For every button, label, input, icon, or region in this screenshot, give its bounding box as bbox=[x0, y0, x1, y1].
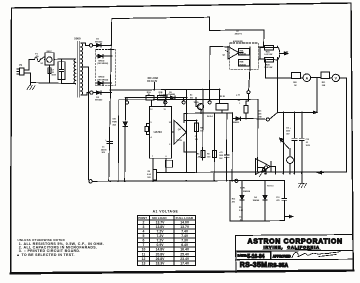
svg-text:3300: 3300 bbox=[286, 131, 290, 133]
capacitor C13 leg bbox=[276, 181, 287, 221]
svg-text:26.8V: 26.8V bbox=[156, 257, 166, 261]
svg-text:APPROVED: APPROVED bbox=[273, 254, 292, 258]
svg-text:2N3055: 2N3055 bbox=[239, 64, 246, 66]
junction dots rail A bbox=[109, 180, 111, 182]
resistor R2B bbox=[264, 58, 273, 69]
output + arrow bbox=[279, 53, 285, 55]
wire bus2 (V+ on PCB) bbox=[126, 96, 187, 98]
svg-text:25.4V: 25.4V bbox=[180, 252, 190, 256]
diode D6 bbox=[232, 117, 258, 124]
svg-text:16.4V: 16.4V bbox=[180, 248, 190, 252]
IC pin 13 stub bbox=[164, 100, 166, 107]
svg-text:100: 100 bbox=[207, 156, 210, 158]
svg-text:2: 2 bbox=[143, 220, 145, 224]
svg-text:10: 10 bbox=[142, 248, 146, 252]
svg-text:RS-35M: RS-35M bbox=[240, 262, 267, 269]
wire secondary bottom lead bbox=[81, 93, 90, 95]
IC U1 UA723 bbox=[145, 106, 172, 158]
wire Q2 collector to R3 bbox=[184, 110, 232, 122]
svg-text:DC 18.3V: DC 18.3V bbox=[147, 81, 157, 83]
arrow aux output bbox=[284, 216, 289, 218]
svg-text:7: 7 bbox=[152, 156, 153, 158]
resistor R7 across IC pins 4-5 bbox=[147, 124, 150, 135]
resistor R9 on pin7 leg bbox=[147, 170, 156, 180]
pot R22 voltage adjust bbox=[280, 112, 289, 175]
svg-text:TIP29: TIP29 bbox=[194, 102, 199, 104]
wire emitter down to sense terminal bbox=[249, 69, 250, 90]
svg-text:2.2: 2.2 bbox=[159, 94, 162, 96]
svg-text:R21: R21 bbox=[322, 82, 325, 84]
svg-text:C8: C8 bbox=[195, 136, 197, 138]
svg-text:NO LOAD: NO LOAD bbox=[148, 77, 159, 80]
svg-text:5: 5 bbox=[151, 122, 152, 124]
wire meter junction down to sense bus bbox=[316, 78, 318, 113]
diode D9 vertical with crowbar path bbox=[123, 97, 127, 181]
wire raw + top run to pass transistor bbox=[113, 17, 264, 47]
svg-text:13.7V: 13.7V bbox=[180, 225, 190, 229]
transistor Q6 TIP29 driver bbox=[196, 98, 203, 114]
plug P1 bbox=[17, 65, 24, 75]
transistor Q1 symbol bbox=[223, 47, 240, 60]
capacitor C1 (main filter) on + rail bbox=[101, 140, 113, 155]
svg-text:7.4V: 7.4V bbox=[181, 230, 189, 234]
svg-text:/RS-35A: /RS-35A bbox=[268, 263, 289, 269]
svg-text:▲10: ▲10 bbox=[236, 93, 240, 96]
vertical wire x=232 bbox=[231, 113, 233, 181]
svg-text:0.05 10W: 0.05 10W bbox=[264, 54, 272, 56]
svg-text:100: 100 bbox=[195, 139, 198, 141]
svg-text:TIP29: TIP29 bbox=[176, 140, 182, 142]
line capacitor C7 box bbox=[58, 59, 65, 82]
wire switch to MOV box bbox=[44, 58, 46, 60]
wire Q2 base node to R8 chain bbox=[184, 119, 197, 121]
voltmeter M2 bbox=[330, 74, 347, 81]
dashed enclosure 4 parallel transistors bbox=[230, 43, 258, 69]
svg-text:12: 12 bbox=[142, 257, 146, 261]
junction bus1 feed bbox=[219, 89, 221, 91]
node terminal 2 bbox=[182, 101, 185, 104]
svg-text:SR1660: SR1660 bbox=[95, 41, 103, 43]
wire center tap bbox=[81, 67, 89, 180]
svg-text:C12: C12 bbox=[306, 139, 309, 141]
svg-text:10: 10 bbox=[169, 122, 171, 124]
svg-text:R5B: R5B bbox=[240, 62, 244, 64]
wire plug hot to fuse bbox=[24, 59, 35, 70]
fuse F1 bbox=[35, 54, 41, 62]
diode D1 bbox=[93, 39, 112, 47]
junction dots bus2 bbox=[186, 97, 188, 99]
diode D1B (alt) bbox=[97, 55, 113, 66]
diode D4 leg bbox=[253, 181, 268, 221]
svg-text:1N4148: 1N4148 bbox=[253, 199, 260, 202]
labels R2C sense resistor bbox=[258, 110, 262, 118]
junction arrow minus output bbox=[318, 172, 324, 174]
svg-text:1: 1 bbox=[239, 103, 240, 105]
wire hot run to transformer bbox=[54, 58, 76, 60]
resistor R1A bbox=[146, 91, 154, 100]
labels Q1 2N3771 bbox=[233, 31, 243, 43]
svg-text:2N3055: 2N3055 bbox=[239, 53, 246, 55]
capacitor C11 bbox=[286, 112, 297, 175]
svg-text:R5A: R5A bbox=[240, 50, 244, 53]
vertical chain R7a bbox=[196, 89, 205, 160]
svg-text:R2C: R2C bbox=[258, 110, 262, 112]
wire Q2 emitter run bbox=[184, 142, 197, 152]
terminal secondary top bbox=[89, 44, 92, 47]
terminal on 0V rail A bbox=[235, 179, 238, 182]
resistor R20 bbox=[292, 73, 301, 87]
svg-text:6.4V: 6.4V bbox=[181, 243, 189, 247]
svg-text:13: 13 bbox=[142, 261, 146, 265]
node terminal 3 bbox=[164, 101, 167, 104]
svg-text:R3 2K: R3 2K bbox=[220, 96, 226, 98]
svg-text:UA723: UA723 bbox=[154, 130, 163, 134]
svg-text:A1 VOLTAGE: A1 VOLTAGE bbox=[153, 210, 179, 214]
wire parallel pair top bbox=[260, 47, 278, 49]
svg-text:DIO: DIO bbox=[113, 118, 117, 120]
svg-text:470: 470 bbox=[276, 199, 279, 202]
svg-text:R9: R9 bbox=[148, 171, 150, 173]
wire bus1 (raw + to PCB) bbox=[112, 89, 220, 103]
resistor R8b (sense) bbox=[236, 93, 249, 118]
wire emitter out to R2 pair bbox=[258, 58, 260, 60]
svg-text:1000: 1000 bbox=[219, 155, 223, 157]
label C7 .01 600V bbox=[52, 70, 57, 77]
secondary winding bbox=[81, 43, 82, 95]
signature bbox=[292, 252, 340, 258]
svg-text:SR602: SR602 bbox=[98, 77, 105, 79]
svg-text:R17 10: R17 10 bbox=[267, 186, 273, 188]
label DIO FWB 35A bbox=[112, 118, 117, 126]
title block bbox=[236, 235, 354, 273]
svg-text:18.3V: 18.3V bbox=[156, 261, 166, 265]
svg-text:7.2V: 7.2V bbox=[157, 230, 165, 234]
svg-text:12: 12 bbox=[150, 109, 152, 111]
wire parallel pair bottom bbox=[260, 48, 278, 60]
wire rectifier + rail (vertical) bbox=[109, 19, 112, 182]
wire bus1 to bus2 drop bbox=[186, 90, 188, 98]
node terminal 13 (base drive out) bbox=[208, 101, 211, 104]
svg-text:R8: R8 bbox=[238, 100, 240, 102]
diode D5 on bus2 bbox=[168, 92, 175, 99]
switch S1 bbox=[40, 57, 46, 66]
node terminal 10 (bus2 feed) bbox=[125, 101, 128, 104]
label D5 TIP29 block bbox=[190, 93, 199, 104]
svg-text:SCR1: SCR1 bbox=[240, 188, 246, 190]
svg-text:C13: C13 bbox=[276, 197, 279, 199]
svg-text:13: 13 bbox=[164, 109, 166, 111]
svg-text:R12: R12 bbox=[239, 207, 242, 209]
diode D2B (alt) bbox=[97, 77, 112, 85]
resistor R3 bbox=[216, 96, 228, 110]
svg-text:7.4V: 7.4V bbox=[181, 234, 189, 238]
wire trigger network bottom bbox=[230, 220, 284, 222]
svg-text:.01: .01 bbox=[306, 142, 309, 144]
terminal secondary bottom bbox=[90, 91, 93, 94]
svg-text:11: 11 bbox=[142, 252, 146, 256]
terminal PCB right bottom bbox=[264, 166, 267, 169]
svg-text:FWB: FWB bbox=[112, 121, 117, 123]
svg-text:+C5: +C5 bbox=[219, 152, 223, 154]
alternate FWB dashed box bbox=[96, 50, 116, 86]
ballast resistor block R5B bbox=[239, 60, 250, 67]
junction dots on + rail bbox=[110, 44, 112, 46]
svg-text:23.4V: 23.4V bbox=[180, 257, 190, 261]
svg-text:▲ TO BE SELECTED IN TEST.: ▲ TO BE SELECTED IN TEST. bbox=[16, 253, 75, 257]
resistor R8 chain vertical bbox=[194, 120, 203, 173]
svg-text:R2B: R2B bbox=[266, 64, 270, 66]
ballast resistor block R5A bbox=[239, 49, 250, 56]
svg-text:2.2K: 2.2K bbox=[239, 210, 244, 212]
svg-text:1N4003: 1N4003 bbox=[233, 121, 240, 124]
resistor R21 bbox=[321, 72, 330, 87]
zener D3 leg bbox=[232, 180, 244, 222]
capacitor C3 bbox=[160, 90, 168, 101]
wire 0V rail B bbox=[157, 78, 347, 172]
resistor R1B bbox=[158, 92, 166, 100]
svg-text:MOV: MOV bbox=[47, 51, 53, 53]
transformer core bbox=[77, 42, 79, 98]
svg-text:1.4K: 1.4K bbox=[196, 155, 201, 158]
svg-text:DATE:: DATE: bbox=[238, 254, 247, 258]
svg-text:+14V: +14V bbox=[283, 50, 289, 53]
svg-text:17.4V: 17.4V bbox=[180, 261, 190, 265]
svg-text:IRVINE, CALIFORNIA: IRVINE, CALIFORNIA bbox=[264, 245, 320, 250]
svg-text:SR602: SR602 bbox=[98, 60, 105, 62]
wire R2B node down to meter row bbox=[265, 60, 291, 78]
svg-text:800: 800 bbox=[190, 97, 193, 99]
svg-text:R2A: R2A bbox=[266, 51, 270, 54]
svg-text:0.9V: 0.9V bbox=[157, 243, 165, 247]
wire long drop x=186.6 to PCB bottom bbox=[185, 97, 187, 172]
svg-text:34000: 34000 bbox=[101, 148, 107, 151]
svg-text:4: 4 bbox=[143, 230, 145, 234]
svg-text:1N4448: 1N4448 bbox=[168, 93, 175, 96]
earth ground at input bbox=[27, 83, 35, 90]
wire diagonal into PCB sense terminal bbox=[269, 112, 277, 119]
svg-text:600V: 600V bbox=[52, 75, 57, 77]
svg-text:13.8V: 13.8V bbox=[156, 225, 166, 229]
SCR1 symbol bbox=[240, 159, 276, 194]
MOV M1 bbox=[45, 51, 54, 65]
junction dots bus1 bbox=[165, 89, 167, 91]
svg-text:7: 7 bbox=[143, 243, 145, 247]
svg-text:6: 6 bbox=[143, 239, 145, 243]
svg-text:20.8V: 20.8V bbox=[156, 252, 166, 256]
component box on pin6 area bbox=[165, 160, 172, 167]
svg-text:.068: .068 bbox=[258, 113, 262, 115]
node label raw DC bus bbox=[147, 77, 158, 91]
vertical chain R9a bbox=[207, 112, 216, 181]
terminal center tap on 0V rail bbox=[89, 180, 92, 183]
svg-text:5-16-84: 5-16-84 bbox=[247, 254, 264, 260]
output + node arc bbox=[277, 46, 279, 60]
capacitor C12 bbox=[299, 112, 310, 174]
diode D2 bbox=[93, 91, 111, 102]
transistor Q2 driver bbox=[172, 120, 187, 144]
wire sense bus to meters junction bbox=[278, 111, 317, 113]
svg-text:5000: 5000 bbox=[74, 37, 81, 41]
wire 0V rail A bbox=[92, 180, 284, 183]
wire IC pin6 to 0V wire bbox=[165, 158, 167, 172]
svg-text:10W: 10W bbox=[258, 116, 262, 118]
svg-text:A1: A1 bbox=[190, 93, 192, 96]
svg-text:2: 2 bbox=[169, 144, 170, 146]
svg-text:R20: R20 bbox=[293, 82, 296, 84]
svg-text:13.7V: 13.7V bbox=[156, 220, 166, 224]
notes bbox=[16, 238, 104, 257]
svg-text:R9: R9 bbox=[207, 153, 209, 155]
svg-text:R6: R6 bbox=[197, 153, 199, 155]
svg-text:SR1660: SR1660 bbox=[95, 100, 103, 102]
trigger network left leg bbox=[229, 181, 231, 221]
primary winding bbox=[74, 59, 75, 84]
capacitor C5 vertical bbox=[219, 113, 229, 181]
voltage table bbox=[138, 210, 196, 266]
svg-text:7.2V: 7.2V bbox=[157, 234, 165, 238]
resistor R2A bbox=[264, 45, 273, 56]
svg-text:470: 470 bbox=[232, 201, 235, 204]
PCB A1 outline bbox=[118, 99, 258, 181]
chassis ground on rail B bbox=[298, 173, 306, 188]
svg-text:14.0V: 14.0V bbox=[180, 220, 190, 224]
pilot lamp DS1 bbox=[287, 149, 294, 175]
svg-text:2N6504: 2N6504 bbox=[243, 190, 251, 193]
svg-text:R4 2.4: R4 2.4 bbox=[207, 115, 214, 118]
svg-text:7.2V: 7.2V bbox=[157, 239, 165, 243]
svg-text:3: 3 bbox=[143, 225, 145, 229]
svg-text:7.3V: 7.3V bbox=[181, 239, 189, 243]
terminal PCB right (sense out) bbox=[266, 118, 269, 121]
svg-text:5: 5 bbox=[143, 234, 145, 238]
terminal sense (circled) bbox=[247, 91, 250, 94]
wire secondary top lead bbox=[81, 43, 89, 45]
ammeter M1 bbox=[300, 74, 320, 82]
junction SCR cathode on rail B bbox=[264, 173, 266, 175]
wire plug neutral / bottom return bbox=[24, 73, 75, 84]
svg-text:2N3771: 2N3771 bbox=[235, 34, 243, 36]
wire base drive riser to Q1 bbox=[210, 46, 228, 101]
wire + node down to sense bus bbox=[277, 58, 279, 113]
svg-text:100V: 100V bbox=[306, 145, 311, 147]
svg-text:R12: R12 bbox=[232, 199, 235, 201]
svg-text:6: 6 bbox=[166, 156, 167, 158]
svg-text:(OR SR602): (OR SR602) bbox=[97, 63, 108, 65]
wire IC pin7 to 0V bbox=[152, 158, 154, 180]
resistor R16 under MOV bbox=[48, 65, 51, 83]
svg-text:14.8V: 14.8V bbox=[156, 248, 166, 252]
wire collector bar inside cluster bbox=[239, 47, 250, 69]
IC pin 12 stub bbox=[150, 100, 152, 107]
